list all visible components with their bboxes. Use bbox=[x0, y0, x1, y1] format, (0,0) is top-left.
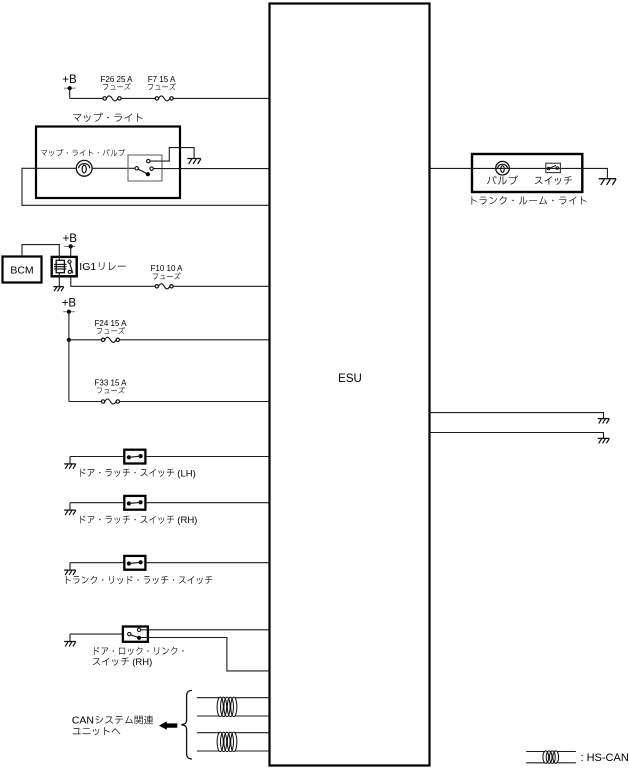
wire CAN L pair2 right bbox=[235, 750, 269, 752]
wire F24 to ESU bbox=[120, 339, 270, 341]
ground (IG1 relay) bbox=[53, 286, 63, 288]
wire ground to switch bbox=[70, 456, 124, 458]
label F24 fuse (katakana) bbox=[97, 327, 125, 334]
fuse F10 10A bbox=[155, 285, 158, 288]
svg-text:ESU: ESU bbox=[338, 373, 362, 385]
wire lock link switch to ESU (lower) bbox=[141, 638, 270, 671]
wire CAN L pair1 left bbox=[197, 715, 219, 717]
wire switch to ESU bbox=[145, 456, 269, 458]
wire switch to ESU bbox=[145, 562, 269, 564]
ground (map light) bbox=[187, 158, 201, 160]
switch contacts (closed) bbox=[127, 561, 131, 565]
ground (ESU right 2) bbox=[598, 437, 610, 439]
switch (trunk light) bbox=[546, 163, 561, 172]
svg-text:F7 15 A: F7 15 A bbox=[148, 75, 176, 84]
label CAN system units line2 bbox=[73, 727, 121, 735]
switch contacts (closed) bbox=[127, 455, 131, 459]
svg-text:BCM: BCM bbox=[10, 265, 33, 277]
wire +B to fuse F26 bbox=[70, 97, 103, 99]
svg-text:+B: +B bbox=[62, 74, 77, 86]
svg-text:: HS-CAN: : HS-CAN bbox=[581, 752, 629, 764]
svg-text:+B: +B bbox=[62, 298, 77, 310]
lamp bulb (trunk light) bbox=[496, 161, 510, 175]
svg-text:(LH): (LH) bbox=[177, 468, 195, 479]
lamp bulb (map light) bbox=[76, 160, 92, 176]
ground (ESU right 1) bbox=[598, 418, 610, 420]
switch box bbox=[124, 556, 145, 570]
label map light bulb bbox=[41, 149, 125, 156]
svg-text:(RH): (RH) bbox=[132, 657, 152, 668]
legend twisted pair symbol bbox=[543, 751, 549, 763]
label IG1 relay (katakana) bbox=[99, 262, 126, 270]
wire F7 to ESU bbox=[173, 97, 269, 99]
label bulb (katakana) bbox=[487, 175, 518, 184]
wire F10 to ESU bbox=[173, 285, 269, 287]
svg-text:CAN: CAN bbox=[72, 715, 94, 727]
wire ESU to ground 2 bbox=[430, 433, 604, 439]
legend wire top left bbox=[526, 751, 544, 753]
wire CAN L pair1 right bbox=[235, 715, 269, 717]
ground (door lock link switch) bbox=[69, 634, 71, 641]
module box BCM bbox=[3, 257, 42, 283]
wire CAN H pair1 right bbox=[235, 697, 269, 699]
label F26 fuse (katakana) bbox=[103, 83, 131, 90]
junction node F24 tap bbox=[67, 338, 71, 342]
switch box bbox=[124, 450, 145, 464]
switch contacts (door lock link) bbox=[137, 628, 140, 631]
wire inside trunk box bbox=[472, 167, 582, 169]
ground (switch) bbox=[69, 563, 71, 570]
legend wire top right bbox=[558, 751, 576, 753]
svg-text:(RH): (RH) bbox=[177, 515, 197, 526]
svg-text:F33 15 A: F33 15 A bbox=[94, 378, 127, 387]
ground (switch) bbox=[69, 457, 71, 464]
label door lock link line2 bbox=[93, 658, 129, 666]
label door latch switch RH bbox=[80, 516, 174, 524]
label map light title bbox=[73, 113, 143, 122]
svg-text:IG1: IG1 bbox=[79, 261, 96, 273]
twisted pair 1 (HS-CAN) bbox=[217, 697, 223, 716]
ground (switch) bbox=[69, 503, 71, 510]
brace (CAN bus group) bbox=[181, 690, 192, 759]
wire CAN H pair1 left bbox=[197, 697, 219, 699]
switch contacts (map light) bbox=[147, 159, 150, 162]
wire +B vertical bus bbox=[68, 312, 70, 402]
wire relay to ground bbox=[58, 276, 60, 286]
wire F33 to ESU bbox=[120, 401, 270, 403]
wire CAN H pair2 right bbox=[235, 732, 269, 734]
label CAN system kanji bbox=[96, 715, 154, 724]
fuse F7 15A bbox=[155, 97, 158, 100]
wire trunk box to ground bbox=[582, 168, 607, 178]
relay coil IG1 bbox=[56, 260, 64, 272]
relay box IG1 bbox=[52, 257, 77, 276]
map light box bbox=[36, 127, 180, 199]
svg-text:F26 25 A: F26 25 A bbox=[100, 75, 133, 84]
wire switch to ESU bbox=[145, 502, 269, 504]
svg-text:F24 15 A: F24 15 A bbox=[94, 319, 127, 328]
ground (trunk light) bbox=[599, 178, 616, 180]
arrow to CAN units bbox=[159, 721, 177, 729]
label door latch switch LH bbox=[80, 469, 174, 477]
wire F26 to F7 bbox=[121, 97, 155, 99]
legend wire bottom left bbox=[526, 762, 544, 764]
switch box bbox=[124, 496, 145, 510]
svg-text:+B: +B bbox=[63, 233, 78, 245]
wire CAN L pair2 left bbox=[197, 750, 219, 752]
switch box (map light) bbox=[128, 155, 162, 181]
switch contacts (closed) bbox=[127, 501, 131, 505]
wire CAN H pair2 left bbox=[197, 732, 219, 734]
relay contact IG1 bbox=[68, 260, 71, 263]
label F33 fuse (katakana) bbox=[97, 387, 125, 394]
wire +B to fuse F24 bbox=[69, 339, 102, 341]
switch box (door lock link) bbox=[123, 627, 148, 642]
label switch (katakana) bbox=[535, 176, 572, 185]
label F10 fuse (katakana) bbox=[153, 273, 181, 280]
wire +B to fuse F33 bbox=[69, 401, 102, 403]
label F7 fuse (katakana) bbox=[148, 83, 176, 90]
wire ground to switch bbox=[70, 562, 124, 564]
label door lock link line1 bbox=[94, 647, 183, 655]
wire ground to switch bbox=[70, 502, 124, 504]
wire ESU to ground 1 bbox=[430, 413, 604, 419]
label trunk lid latch switch bbox=[66, 576, 213, 584]
wire lock link switch to ESU (upper) bbox=[141, 629, 270, 631]
trunk room light box bbox=[472, 154, 582, 192]
legend wire bottom right bbox=[558, 762, 576, 764]
wire bulb to switch bbox=[92, 167, 135, 169]
fuse F33 15A bbox=[101, 400, 104, 403]
wire ESU to trunk light bbox=[430, 167, 473, 169]
svg-text:F10 10 A: F10 10 A bbox=[150, 264, 183, 273]
twisted pair 2 (HS-CAN) bbox=[217, 732, 223, 751]
fuse F26 25A bbox=[103, 97, 106, 100]
wire relay to fuse F10 bbox=[71, 276, 155, 286]
ECU box ESU bbox=[270, 4, 430, 766]
wire switch to ground bbox=[150, 148, 194, 162]
wire ground to lock link switch bbox=[70, 633, 123, 635]
fuse F24 15A bbox=[101, 338, 104, 341]
label trunk room light bbox=[472, 196, 587, 204]
wire switch to ESU bbox=[153, 168, 269, 170]
wire bulb return to ESU bbox=[22, 168, 270, 205]
wire BCM to relay coil bbox=[22, 245, 59, 257]
